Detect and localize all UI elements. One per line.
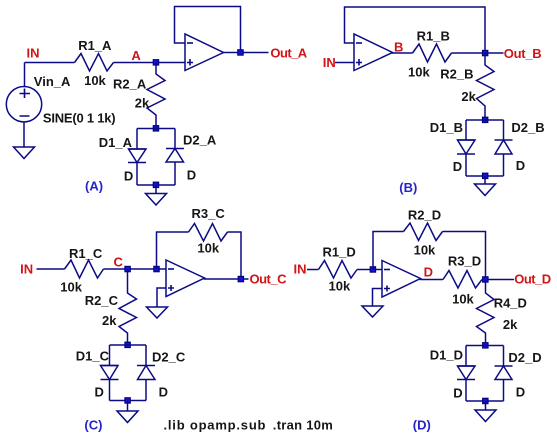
svg-text:C: C — [114, 254, 124, 269]
resistor R2_C — [85, 269, 137, 345]
wire — [503, 154, 505, 176]
wire — [109, 380, 111, 401]
wire — [109, 345, 111, 366]
wire (feedback, circuit A) — [175, 7, 241, 53]
wire — [465, 120, 467, 140]
diode D2_C — [137, 350, 186, 400]
wire — [503, 120, 505, 140]
diode D2_A — [166, 132, 217, 182]
svg-text:R1_C: R1_C — [69, 246, 103, 261]
wire — [205, 278, 249, 279]
ground — [146, 194, 167, 206]
svg-text:D2_C: D2_C — [152, 350, 186, 365]
wire — [484, 176, 486, 184]
junction node (minus input D) — [370, 267, 376, 273]
svg-text:D2_D: D2_D — [508, 350, 541, 365]
wire — [503, 346, 505, 367]
wire — [137, 128, 175, 130]
svg-text:D1_A: D1_A — [99, 135, 133, 150]
wire — [485, 401, 487, 410]
svg-text:IN: IN — [27, 46, 40, 61]
svg-text:D2_A: D2_A — [183, 132, 217, 147]
svg-text:.lib opamp.sub: .lib opamp.sub — [164, 418, 266, 433]
svg-text:SINE(0 1 1k): SINE(0 1 1k) — [43, 111, 116, 126]
wire — [503, 380, 505, 402]
ground — [362, 306, 383, 317]
resistor R1_B — [408, 29, 452, 80]
wire (plus input to ground, circuit C) — [157, 288, 166, 307]
svg-text:.tran 10m: .tran 10m — [273, 418, 333, 433]
svg-text:10k: 10k — [329, 279, 351, 294]
diode D2_B — [495, 120, 545, 173]
wire — [136, 129, 138, 150]
wire — [145, 345, 147, 366]
resistor R3_C — [189, 206, 228, 256]
wire — [155, 185, 157, 194]
ground — [475, 410, 496, 422]
svg-text:2k: 2k — [135, 96, 150, 111]
svg-text:R1_B: R1_B — [417, 29, 450, 44]
junction node (R2_A / diode pair) — [153, 126, 159, 132]
junction node (R2_B / diode pair) — [482, 117, 488, 123]
wire — [110, 344, 147, 346]
wire — [393, 52, 413, 55]
svg-text:10k: 10k — [197, 241, 219, 256]
wire — [174, 129, 176, 149]
svg-text:D: D — [516, 385, 525, 400]
op-amp U_C — [166, 260, 205, 297]
svg-text:2k: 2k — [102, 313, 117, 328]
junction node (output C) — [238, 276, 244, 282]
svg-text:IN: IN — [20, 261, 33, 276]
junction node (diode bottom, circuit A) — [153, 182, 159, 188]
svg-text:10k: 10k — [408, 64, 430, 79]
svg-text:R2_D: R2_D — [408, 208, 441, 223]
junction node (R2_C / diode pair) — [125, 342, 131, 348]
wire (feedback left, circuit D) — [373, 232, 404, 270]
junction node (diode bottom, circuit D) — [483, 398, 489, 404]
svg-text:(A): (A) — [85, 178, 103, 193]
resistor R2_A — [113, 63, 165, 129]
svg-text:D2_B: D2_B — [511, 120, 544, 135]
wire — [485, 52, 504, 54]
svg-text:Out_B: Out_B — [504, 46, 542, 61]
svg-text:Vin_A: Vin_A — [34, 74, 71, 89]
svg-text:R3_D: R3_D — [448, 254, 481, 269]
wire — [465, 380, 467, 402]
svg-text:2k: 2k — [503, 317, 518, 332]
svg-text:R2_B: R2_B — [440, 67, 473, 82]
svg-text:D1_C: D1_C — [76, 349, 110, 364]
svg-text:2k: 2k — [461, 89, 476, 104]
svg-text:R2_A: R2_A — [113, 77, 147, 92]
svg-text:D: D — [159, 385, 168, 400]
svg-text:D: D — [187, 168, 196, 183]
wire — [137, 184, 175, 186]
diode D1_D — [430, 348, 475, 401]
junction node (diode bottom, circuit B) — [482, 173, 488, 179]
ground — [475, 184, 496, 196]
junction node (minus input C) — [154, 266, 160, 272]
svg-text:D1_D: D1_D — [430, 348, 463, 363]
wire — [357, 269, 382, 271]
svg-text:R2_C: R2_C — [85, 293, 119, 308]
svg-text:R1_D: R1_D — [323, 245, 356, 260]
wire — [23, 122, 25, 147]
svg-text:IN: IN — [294, 262, 307, 277]
svg-text:(D): (D) — [413, 418, 431, 433]
svg-text:R3_C: R3_C — [192, 206, 226, 221]
wire — [466, 400, 504, 402]
wire (feedback left, circuit C) — [157, 232, 189, 269]
svg-text:(B): (B) — [399, 180, 417, 195]
resistor R1_D — [319, 245, 358, 294]
diode D1_B — [430, 120, 475, 174]
wire — [465, 346, 467, 367]
ground — [14, 147, 35, 159]
svg-text:R1_A: R1_A — [78, 38, 112, 53]
junction node A — [153, 60, 159, 66]
wire — [224, 52, 269, 54]
svg-text:D1_B: D1_B — [430, 120, 463, 135]
svg-text:Out_A: Out_A — [270, 45, 307, 60]
wire (feedback, circuit B) — [345, 7, 486, 53]
junction node (output D) — [483, 277, 489, 283]
svg-text:10k: 10k — [84, 73, 106, 88]
svg-text:Out_D: Out_D — [514, 272, 551, 287]
wire — [466, 175, 504, 177]
op-amp U_A — [185, 34, 224, 71]
junction node (output A) — [238, 50, 244, 56]
svg-text:D: D — [453, 386, 462, 401]
voltage source Vin_A — [6, 74, 115, 126]
wire — [145, 380, 147, 401]
svg-text:D: D — [516, 158, 525, 173]
resistor R2_B — [440, 53, 494, 120]
ground — [147, 307, 168, 318]
wire (feedback right, circuit C) — [228, 232, 242, 279]
wire — [25, 62, 75, 64]
junction node (output B) — [482, 50, 488, 56]
svg-text:B: B — [394, 39, 403, 54]
svg-text:D: D — [95, 385, 104, 400]
resistor R4_D — [477, 280, 527, 346]
svg-text:D: D — [424, 264, 433, 279]
junction node (R4_D / diode pair) — [483, 343, 489, 349]
wire — [465, 154, 467, 176]
svg-text:10k: 10k — [60, 280, 82, 295]
wire (feedback right, circuit D) — [443, 232, 486, 280]
svg-text:D: D — [124, 169, 133, 184]
svg-text:Out_C: Out_C — [250, 271, 288, 286]
wire — [482, 279, 514, 281]
resistor R1_C — [60, 246, 103, 295]
svg-text:10k: 10k — [414, 243, 436, 258]
wire — [335, 62, 354, 64]
svg-text:(C): (C) — [84, 418, 102, 433]
wire — [307, 269, 319, 271]
wire — [127, 401, 129, 412]
wire — [114, 62, 186, 64]
resistor R1_A — [75, 38, 114, 88]
diode D1_A — [99, 135, 146, 184]
wire — [174, 162, 176, 185]
wire — [37, 268, 65, 270]
junction node (diode bottom, circuit C) — [125, 398, 131, 404]
diode D1_C — [76, 349, 119, 400]
op-amp U_B — [354, 34, 393, 71]
wire — [452, 52, 486, 54]
svg-text:IN: IN — [323, 55, 336, 70]
svg-text:R4_D: R4_D — [494, 296, 527, 311]
svg-text:A: A — [131, 48, 141, 63]
op-amp U_D — [382, 261, 421, 298]
wire — [466, 345, 504, 347]
resistor R2_D — [404, 208, 443, 258]
resistor R3_D — [443, 254, 482, 307]
wire — [136, 163, 138, 186]
junction node C — [125, 266, 131, 272]
wire — [421, 279, 444, 280]
wire (plus input to ground, circuit D) — [373, 289, 383, 307]
svg-text:D: D — [453, 159, 462, 174]
wire — [466, 119, 504, 121]
svg-text:10k: 10k — [452, 292, 474, 307]
ground — [117, 411, 138, 423]
wire — [24, 63, 26, 88]
wire — [110, 400, 147, 402]
diode D2_D — [495, 350, 542, 400]
wire — [104, 268, 167, 270]
